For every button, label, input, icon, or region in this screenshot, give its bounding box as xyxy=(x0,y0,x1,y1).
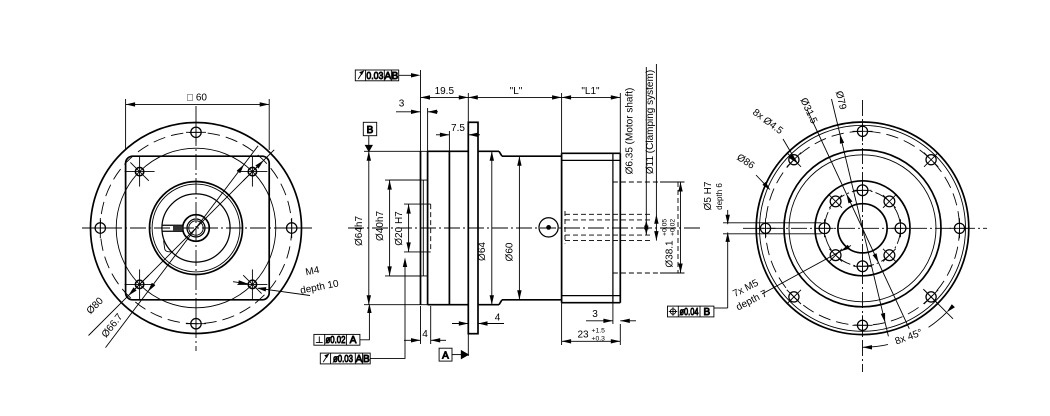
right view Ø5 H7 hole at 180 deg xyxy=(816,219,834,237)
svg-text:"L1": "L1" xyxy=(581,86,600,97)
svg-text:+0.3: +0.3 xyxy=(592,336,606,343)
middle view bore hidden line xyxy=(564,211,566,244)
right view hub circle xyxy=(815,181,910,276)
svg-text:depth 6: depth 6 xyxy=(715,183,724,210)
dim 7.5 xyxy=(436,131,480,151)
right view M5 tapped hole at 0 deg xyxy=(892,219,910,237)
svg-text:+0.02: +0.02 xyxy=(670,219,677,236)
right view outer flange circle xyxy=(756,122,969,335)
right view bolt circle Ø79 dashed xyxy=(766,131,960,325)
right view Ø5 H7 extension lines xyxy=(723,223,822,234)
left view M4 tapped hole top-left xyxy=(125,157,155,187)
left view outer flange circle xyxy=(91,123,302,334)
middle view right face xyxy=(619,153,621,302)
svg-text:Ø38.1: Ø38.1 xyxy=(665,240,676,268)
left view square-60 dimension xyxy=(126,99,270,150)
dim 3 boss label xyxy=(399,99,405,110)
svg-text:B: B xyxy=(392,71,399,82)
datum A symbol xyxy=(439,334,468,362)
svg-text:4: 4 xyxy=(495,313,501,324)
right view Ø4.5 hole at 45 deg xyxy=(924,290,938,304)
middle view boss outline Ø40h7 xyxy=(390,180,428,276)
right view Ø31.5 label xyxy=(798,96,820,126)
middle view motor housing outline xyxy=(562,153,621,302)
dim Ø60 label xyxy=(505,242,516,261)
middle view body outline Ø64h7 xyxy=(428,151,469,304)
left view bore chamfer circle xyxy=(189,221,203,235)
svg-text:Ø64h7: Ø64h7 xyxy=(354,216,365,246)
left view output boss circle outer xyxy=(150,182,243,275)
svg-text:3: 3 xyxy=(399,99,405,110)
left view M4 tapped hole top-right xyxy=(237,157,267,187)
dim Ø38.1 line xyxy=(678,182,682,273)
dim Ø20 H7 label xyxy=(394,211,405,246)
left view bolt circle dashed Ø80 xyxy=(100,132,291,323)
svg-text:B: B xyxy=(363,354,370,365)
svg-text:A: A xyxy=(442,350,449,361)
left view M4 bolt circle Ø66.7 thin xyxy=(116,148,276,308)
middle view grub screw hole xyxy=(539,218,558,237)
dim 19.5 label xyxy=(435,86,455,97)
dim L1 line xyxy=(562,95,621,99)
left view square-60 label xyxy=(187,93,207,104)
right view Ø4.5 hole at 270 deg xyxy=(853,121,873,141)
right view Ø4.5 hole at 90 deg xyxy=(853,315,873,335)
middle view Ø60 body outline xyxy=(502,156,562,300)
left view right mounting hole xyxy=(282,218,302,238)
left view M4 depth label xyxy=(299,265,340,297)
dim 4 bore depth label xyxy=(422,329,428,340)
right view recess chamfer circle xyxy=(789,155,936,302)
svg-text:B: B xyxy=(703,307,710,318)
svg-text:19.5: 19.5 xyxy=(435,86,455,97)
dim 23 label xyxy=(577,328,605,343)
dim 19.5 extension lines xyxy=(421,70,469,151)
svg-text:ø0.02: ø0.02 xyxy=(326,335,346,346)
middle view mounting flange plate xyxy=(468,122,478,333)
svg-text:7.5: 7.5 xyxy=(451,123,465,134)
middle view bore bottom hidden line xyxy=(430,204,432,252)
left view Ø66.7 diameter dimension line xyxy=(106,146,259,348)
right view 7x M5 label xyxy=(731,277,769,313)
runout feature frame 0.03 A B xyxy=(355,70,398,82)
middle view main left face xyxy=(427,151,429,304)
dim 7.5 label xyxy=(451,123,465,134)
svg-text:Ø6.35 (Motor shaft): Ø6.35 (Motor shaft) xyxy=(625,88,636,175)
left view M4 tapped hole bottom-right xyxy=(237,269,267,299)
svg-text:4: 4 xyxy=(422,329,428,340)
right view Ø31.5 dimension line xyxy=(807,110,913,338)
left view square body outline 60x60 xyxy=(126,156,270,300)
position feature frame 0.04 B xyxy=(668,306,714,318)
middle view motor shaft hidden lines Ø11 xyxy=(565,214,652,240)
left view hub circle xyxy=(183,215,210,242)
right view M5 tapped hole at 45 deg xyxy=(883,249,896,262)
svg-text:23: 23 xyxy=(577,330,589,341)
right view Ø4.5 hole at 225 deg xyxy=(787,153,801,167)
left view Ø66.7 label xyxy=(100,311,126,340)
left view M4 leader line xyxy=(233,280,310,295)
middle view motor housing junction xyxy=(561,153,563,302)
dim 19.5 line xyxy=(421,95,469,99)
right view Ø4.5 hole at 0 deg xyxy=(950,218,970,238)
right view center bore circle xyxy=(838,204,887,253)
dim 4 flange xyxy=(452,321,504,325)
svg-text:□ 60: □ 60 xyxy=(187,93,207,104)
svg-text:Ø60: Ø60 xyxy=(505,242,516,261)
svg-text:ø0.04: ø0.04 xyxy=(680,307,699,318)
svg-text:Ø11 (Clamping system): Ø11 (Clamping system) xyxy=(645,70,656,174)
svg-text:3: 3 xyxy=(592,309,598,320)
left view left mounting hole xyxy=(90,218,110,238)
dim Ø64h7 label xyxy=(354,216,365,246)
right view M5 tapped hole at 315 deg xyxy=(883,195,896,208)
svg-text:+1.5: +1.5 xyxy=(592,328,606,335)
runout feature frame 0.03 A B bottom xyxy=(320,353,370,365)
dim Ø20 H7 xyxy=(406,204,410,252)
dim Ø6.35 line xyxy=(644,67,648,235)
dim Ø38.1 extension lines xyxy=(660,182,685,273)
right view Ø79 dimension line xyxy=(832,99,891,345)
middle view boss chamfer line xyxy=(422,180,424,276)
left view relief notch xyxy=(164,241,173,253)
svg-text:"L": "L" xyxy=(510,86,523,97)
right view centerline vertical xyxy=(862,100,864,372)
right view Ø4.5 hole at 180 deg xyxy=(756,218,776,238)
right view M5 tapped hole at 225 deg xyxy=(829,195,842,208)
svg-text:A: A xyxy=(356,354,363,365)
right view Ø5 H7 dimension line xyxy=(714,210,730,308)
dim Ø40h7 label xyxy=(375,211,386,241)
right view recess circle Ø66 xyxy=(784,150,941,307)
dim Ø64 xyxy=(490,151,494,304)
dim L1 label xyxy=(581,86,600,97)
right view Ø79 label xyxy=(833,90,848,111)
dim Ø64 label xyxy=(477,242,488,261)
dim L line xyxy=(468,95,561,99)
dim 3 right wall xyxy=(586,303,636,324)
middle view step line xyxy=(448,151,450,304)
dim 4 flange label xyxy=(495,313,501,324)
middle view clamping system hidden outline Ø38.1 xyxy=(613,182,678,273)
left view centerline vertical xyxy=(195,106,197,351)
middle view inner wall line xyxy=(612,153,614,302)
left view Ø80 diameter dimension line xyxy=(89,150,275,336)
right view centerline horizontal xyxy=(743,227,987,229)
dim 3 boss xyxy=(396,108,438,151)
right view Ø86 label xyxy=(734,152,756,172)
svg-text:B: B xyxy=(367,125,374,136)
middle view bore lines Ø20H7 xyxy=(404,204,431,252)
right view Ø4.5 hole at 135 deg xyxy=(787,290,801,304)
left view clamp ring circle xyxy=(162,194,230,262)
dim Ø40h7 xyxy=(385,180,421,276)
right view Ø86 circle xyxy=(760,125,966,331)
middle view Ø64 section outline xyxy=(478,151,502,304)
right view 8x Ø4.5 leader xyxy=(783,139,797,163)
right view M5 tapped hole at 135 deg xyxy=(829,249,842,262)
left view centerline horizontal xyxy=(82,227,312,229)
right view M5 tapped hole at 90 deg xyxy=(854,257,872,275)
left view clamp slot xyxy=(162,225,183,231)
left view M4 tapped hole bottom-left xyxy=(125,269,155,299)
svg-text:A: A xyxy=(350,335,357,346)
datum B symbol xyxy=(363,122,376,151)
dim 23 line xyxy=(562,303,621,345)
dim L label xyxy=(510,86,523,97)
perpendicularity frame leader xyxy=(360,304,372,340)
left view Ø80 label xyxy=(85,295,106,316)
dim Ø38.1 label xyxy=(662,219,677,268)
left view bottom mounting hole xyxy=(186,314,206,334)
dim Ø60 xyxy=(517,156,521,300)
dim L extension line xyxy=(561,93,563,153)
svg-text:0.03: 0.03 xyxy=(366,71,383,82)
left view top mounting hole xyxy=(186,122,206,142)
right view 8x Ø4.5 label xyxy=(750,107,785,137)
right view Ø4.5 hole at 315 deg xyxy=(924,153,938,167)
right view Ø5 H7 label xyxy=(703,181,724,210)
dim Ø11 line xyxy=(654,64,658,241)
dim 4 bore depth xyxy=(404,306,446,344)
svg-text:A: A xyxy=(384,71,391,82)
svg-text:ø0.03: ø0.03 xyxy=(333,354,353,365)
svg-text:+0.05: +0.05 xyxy=(662,219,669,236)
right view 8x45 dimension arc xyxy=(863,304,955,349)
left view bore circle xyxy=(187,219,205,237)
right view Ø86 leader xyxy=(756,175,771,190)
svg-text:Ø40h7: Ø40h7 xyxy=(375,211,386,241)
dim 3 right wall label xyxy=(592,309,598,320)
right view inner bolt circle Ø31.5 xyxy=(825,190,901,266)
svg-text:Ø20 H7: Ø20 H7 xyxy=(394,211,405,246)
svg-text:Ø64: Ø64 xyxy=(477,242,488,261)
dim Ø11 label xyxy=(645,70,656,174)
right view 7x M5 leader xyxy=(762,245,851,294)
middle view output boss face xyxy=(420,151,422,304)
dim L1 extension line xyxy=(619,93,621,153)
right view 45deg radial extension xyxy=(923,289,953,319)
middle view motor shaft hidden lines Ø6.35 xyxy=(565,220,652,235)
perpendicularity feature frame 0.02 A xyxy=(314,334,360,346)
runout frame leader xyxy=(399,73,421,77)
svg-text:Ø5 H7: Ø5 H7 xyxy=(703,181,714,210)
middle view centerline xyxy=(348,227,700,229)
left view output boss chamfer circle xyxy=(152,184,240,272)
dim Ø64h7 xyxy=(364,151,428,304)
right view 8x45 label xyxy=(885,322,931,350)
dim Ø6.35 label xyxy=(625,88,636,175)
right view M5 tapped hole at 270 deg xyxy=(854,181,872,199)
runout frame bottom leader xyxy=(370,258,407,359)
